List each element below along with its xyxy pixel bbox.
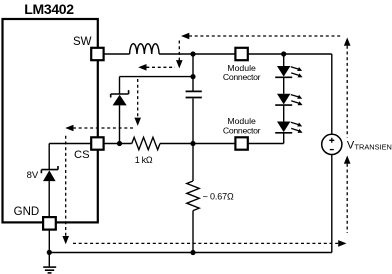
wire dashed current loop arrow toward diode top [138, 64, 175, 71]
node B junction dot diode feed [190, 74, 195, 79]
inductor L1 [130, 44, 159, 54]
wire right rail top [331, 54, 333, 134]
resistor R1 1 kOhm [132, 137, 160, 149]
svg-text:~ 0.67Ω: ~ 0.67Ω [203, 191, 234, 201]
wire dashed current loop right side upper arrow up [344, 38, 351, 138]
node CS wire junction dot [190, 141, 195, 146]
capacitor C1 [186, 91, 202, 97]
wire GND stem [48, 230, 50, 268]
wire dashed current loop bottom arrow right [73, 240, 347, 247]
connector J2 module connector bottom square [235, 137, 247, 149]
op-amp U1 LM3402 regulator box [3, 19, 98, 222]
node A junction dot on SW wire [190, 51, 195, 56]
wire diode cathode stem [119, 77, 121, 94]
node bottom rail junction dot [190, 250, 195, 255]
ground [43, 267, 56, 273]
LED D3 [275, 77, 302, 105]
label Module Connector bottom [223, 116, 261, 135]
wire dashed current loop down along diode [134, 79, 141, 126]
wire 1k resistor to LED return [160, 143, 284, 145]
wire zener cathode stem [48, 144, 50, 170]
label VTRANSIENT [347, 140, 392, 152]
wire dashed current loop right side lower arrow up [344, 156, 351, 234]
connector J1 module connector top square [235, 48, 247, 60]
svg-text:GND: GND [14, 206, 40, 218]
wire zener branch horizontal [49, 143, 91, 145]
wire dashed current loop top arrow left [181, 33, 341, 40]
svg-text:SW: SW [73, 36, 92, 48]
wire sense resistor to bottom rail [192, 211, 194, 253]
wire right rail bottom [331, 155, 333, 253]
diode D1 recirculating [111, 90, 129, 143]
svg-text:1 kΩ: 1 kΩ [135, 155, 153, 165]
label Module Connector top [223, 63, 261, 82]
wire CS to 1k resistor [104, 143, 132, 145]
wire dashed current loop down left side [62, 136, 69, 245]
wire LED string bottom riser [283, 133, 285, 144]
wire capacitor branch upper [192, 54, 194, 91]
node ground junction dot [47, 250, 52, 255]
svg-text:Connector: Connector [223, 72, 261, 82]
node LED string top junction dot [281, 51, 286, 56]
wire SW output [104, 53, 130, 55]
wire bottom rail [49, 252, 332, 254]
wire dashed current loop arrow toward CS [65, 125, 133, 132]
svg-text:TRANSIENT: TRANSIENT [355, 143, 392, 152]
wire diode top horizontal [120, 76, 194, 78]
LED D4 [275, 105, 302, 133]
source V1 transient [322, 134, 342, 154]
wire inductor to right rail [159, 53, 332, 55]
LED D2 [275, 54, 302, 77]
pin SW square [91, 48, 103, 60]
svg-text:8V: 8V [27, 170, 39, 181]
svg-text:Connector: Connector [223, 125, 261, 135]
wire to sense resistor [192, 144, 194, 182]
svg-text:CS: CS [74, 149, 90, 161]
zener diode Z1 8V [41, 166, 58, 218]
wire capacitor to CS wire [192, 98, 194, 143]
pin GND square [43, 217, 56, 230]
svg-text:LM3402: LM3402 [24, 1, 74, 17]
resistor R2 ~0.67 ohm [187, 181, 199, 211]
pin CS square [91, 137, 103, 149]
wire dashed current loop drop to SW node [176, 41, 183, 69]
node diode anode junction dot [117, 141, 122, 146]
